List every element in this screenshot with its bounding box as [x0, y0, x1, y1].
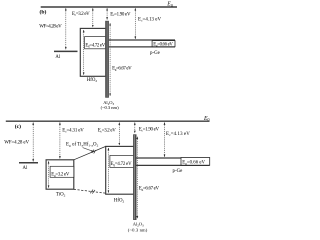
- svg-text:Eg=0.66 eV: Eg=0.66 eV: [182, 161, 205, 166]
- electron affinity arrow TiO2 (c): [59, 123, 61, 159]
- svg-text:p-Ge: p-Ge: [173, 169, 183, 174]
- interlayer valence band slope (c): [74, 189, 106, 193]
- svg-text:Ec=1.90 eV: Ec=1.90 eV: [110, 12, 131, 17]
- vacuum level line E0 (c): [6, 120, 210, 122]
- svg-text:WF=4.28 eV: WF=4.28 eV: [4, 141, 29, 146]
- svg-text:Ec=3.2 eV: Ec=3.2 eV: [72, 12, 90, 17]
- svg-text:Eg=6.67 eV: Eg=6.67 eV: [112, 67, 132, 72]
- svg-text:Eg of TixHf1-xO2: Eg of TixHf1-xO2: [66, 143, 99, 148]
- svg-text:TiO2: TiO2: [56, 192, 66, 197]
- svg-text:(~0.3 nm): (~0.3 nm): [101, 105, 119, 110]
- svg-text:Ec=3.2 eV: Ec=3.2 eV: [98, 128, 116, 133]
- svg-text:Eg=4.72 eV: Eg=4.72 eV: [85, 43, 105, 48]
- Al2O3 layer seam (c): [134, 135, 136, 219]
- Ge conduction band line (c): [137, 157, 210, 159]
- svg-text:Eg=0.66 eV: Eg=0.66 eV: [153, 43, 173, 48]
- svg-text:HfO2: HfO2: [87, 78, 98, 83]
- interlayer conduction band slope (c): [74, 146, 106, 159]
- value box Eg=3.2 eV (c): [50, 166, 74, 177]
- Al2O3 band gap arrow (c): [136, 137, 138, 219]
- svg-text:(c): (c): [15, 123, 21, 130]
- HfO2 band gap arrow (b): [83, 30, 85, 75]
- Ge valence band line (b): [109, 46, 175, 48]
- break mark on conduction slope (c): [92, 150, 96, 154]
- svg-text:E0: E0: [203, 116, 210, 122]
- TiO2 band gap arrow (c): [48, 161, 50, 187]
- svg-text:Ec=4.13 eV: Ec=4.13 eV: [166, 132, 190, 137]
- Ge valence band line (c): [137, 164, 210, 166]
- pointer arrow to interlayer conduction slope (c): [83, 148, 94, 152]
- conduction offset arrow Al2O3 (b): [106, 8, 108, 19]
- svg-text:Al: Al: [23, 166, 28, 171]
- Al2O3 band gap arrow (b): [109, 23, 111, 95]
- HfO2 band box (c): [106, 146, 134, 194]
- TiO2 band box (c): [46, 160, 74, 189]
- svg-text:E0: E0: [166, 2, 173, 8]
- svg-text:p-Ge: p-Ge: [150, 51, 160, 56]
- svg-text:Ec=4.31 eV: Ec=4.31 eV: [62, 128, 84, 133]
- work function arrow Al (b): [65, 8, 67, 49]
- vacuum level line E0 (b): [41, 6, 177, 8]
- value box Eg=0.66 eV (b): [152, 41, 175, 47]
- Al2O3 layer seam (b): [106, 22, 108, 98]
- svg-text:Eg=4.72 eV: Eg=4.72 eV: [111, 162, 133, 167]
- svg-text:(b): (b): [40, 9, 47, 16]
- work function arrow Al (c): [32, 123, 34, 162]
- svg-text:HfO2: HfO2: [114, 199, 125, 204]
- electron affinity arrow Ge (b): [134, 8, 136, 39]
- svg-text:WF=4.28 eV: WF=4.28 eV: [39, 24, 62, 29]
- value box Eg=0.66 eV (c): [181, 158, 210, 166]
- Ge conduction band line (b): [109, 39, 175, 41]
- electron affinity arrow HfO2 (c): [118, 123, 120, 146]
- svg-text:Ec=1.90 eV: Ec=1.90 eV: [139, 127, 160, 132]
- value box Eg=4.72 eV (b): [85, 37, 106, 49]
- electron affinity arrow HfO2 (b): [92, 8, 94, 27]
- svg-text:Eg=6.67 eV: Eg=6.67 eV: [139, 186, 160, 191]
- svg-text:Al: Al: [55, 55, 60, 60]
- Al Fermi level line (c): [19, 162, 38, 164]
- Al2O3 thin layer band (c): [133, 134, 136, 220]
- svg-text:(~0.3 nm): (~0.3 nm): [128, 228, 148, 233]
- break mark on valence slope (c): [90, 190, 95, 194]
- svg-text:Eg=3.2 eV: Eg=3.2 eV: [51, 172, 70, 177]
- HfO2 band gap arrow (c): [107, 148, 109, 193]
- svg-text:Ec=4.13 eV: Ec=4.13 eV: [138, 18, 161, 23]
- HfO2 band box (b): [80, 28, 106, 76]
- electron affinity arrow Ge (c): [164, 123, 166, 157]
- Al2O3 thin layer band (b): [105, 21, 109, 98]
- value box Eg=4.72 eV (c): [110, 155, 134, 167]
- conduction offset arrow Al2O3 (c): [134, 123, 136, 134]
- Al Fermi level line (b): [54, 50, 78, 52]
